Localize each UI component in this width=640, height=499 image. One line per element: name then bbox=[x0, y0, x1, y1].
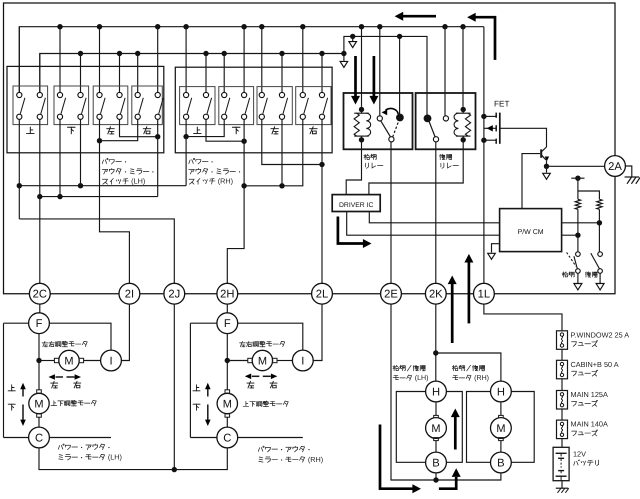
relay2 switch common contact bbox=[433, 137, 438, 142]
thick arrow below DRIVER IC bbox=[338, 217, 364, 244]
svg-text:(LH): (LH) bbox=[415, 374, 429, 382]
resistor R2 bbox=[597, 199, 602, 209]
label 左右調整モータ LH bbox=[42, 342, 48, 344]
svg-text:(LH): (LH) bbox=[108, 453, 122, 462]
connector I LH bbox=[101, 350, 122, 371]
junction dot RH bbox=[225, 358, 230, 363]
svg-text:MAIN 125A: MAIN 125A bbox=[571, 390, 608, 399]
wire H2 net 上R/下L to 右R bbox=[40, 196, 158, 198]
mirror motor assembly box RH bbox=[190, 323, 302, 437]
B+ rail to connector 1L bbox=[483, 27, 485, 284]
relay2 coil bbox=[461, 107, 466, 112]
svg-text:F: F bbox=[224, 318, 231, 330]
wire 下R column RH to connector 2H bbox=[227, 120, 244, 283]
svg-text:H: H bbox=[432, 386, 440, 398]
relay2 switch NC contact bbox=[443, 116, 448, 121]
svg-text:(LH): (LH) bbox=[131, 177, 145, 186]
wire fuse link bbox=[561, 379, 563, 391]
chassis ground at 2A bbox=[626, 166, 632, 177]
svg-text:P/W CM: P/W CM bbox=[518, 228, 544, 236]
resistor node bbox=[575, 176, 580, 181]
control unit outer border box bbox=[4, 3, 616, 294]
arrow marker on W36 bbox=[352, 36, 354, 41]
label power outer mirror motor LH bbox=[58, 446, 59, 450]
thick arrows near 2K bbox=[451, 284, 454, 343]
svg-text:2L: 2L bbox=[316, 289, 328, 301]
svg-text:M: M bbox=[431, 423, 440, 435]
wire M-B RH bbox=[500, 441, 502, 453]
connector C RH bbox=[217, 427, 238, 448]
svg-text:CABIN+B 50 A: CABIN+B 50 A bbox=[571, 360, 619, 369]
label 格納 bbox=[562, 272, 564, 277]
bus wire B+ (top bus 1) bbox=[19, 27, 484, 92]
connector 2A bbox=[605, 156, 626, 177]
labels 左 右 LH bbox=[51, 382, 58, 384]
wire B LH stub bbox=[435, 473, 437, 480]
wire fuse to battery bbox=[561, 439, 563, 448]
wire bus1 to relay2 contact bbox=[444, 27, 446, 116]
relay1 switch NC contact bbox=[377, 116, 382, 121]
junction dot H1 A1 bbox=[17, 183, 22, 188]
wire relay1 common to connector 2E bbox=[390, 142, 392, 283]
switch sub-boxes and contacts RH bbox=[180, 87, 215, 125]
junction dot emitter bbox=[544, 164, 549, 169]
svg-text:(RH): (RH) bbox=[308, 455, 323, 464]
wire 左R column RH bbox=[281, 120, 283, 186]
connector B RH bbox=[491, 452, 512, 473]
wire C LH to C RH with 2J return bbox=[39, 448, 227, 470]
relay1 switch NO contact bbox=[396, 114, 404, 122]
junction dot H2 A3 bbox=[57, 194, 62, 199]
bottom thick arrow 2 bbox=[439, 477, 456, 489]
junction dot 2J return bbox=[172, 467, 177, 472]
wire fuse link bbox=[561, 409, 563, 420]
P/W CM ground arrow bbox=[492, 244, 500, 253]
junction dot W36 relay1 contact bbox=[397, 34, 402, 39]
junction dot B LH bbox=[433, 477, 438, 482]
junction dot 右R bbox=[155, 134, 160, 139]
wire H-M RH bbox=[500, 402, 502, 416]
svg-text:(RH): (RH) bbox=[218, 177, 233, 186]
bus wire 2 (top bus 2) bbox=[40, 54, 344, 93]
mirror motor assembly box LH bbox=[4, 323, 112, 437]
vertical wires bus to switch contacts RH bbox=[185, 27, 187, 92]
top thick arrow 2 bbox=[476, 17, 496, 60]
svg-text:2C: 2C bbox=[33, 289, 47, 301]
svg-text:P.WINDOW2 25 A: P.WINDOW2 25 A bbox=[571, 330, 630, 339]
wire relay1 coil to DRIVER IC bbox=[346, 140, 361, 195]
label power outer mirror motor RH bbox=[258, 448, 259, 452]
wire fuse link bbox=[561, 349, 563, 360]
relay1 lever alternate position bbox=[393, 121, 399, 137]
svg-text:12V: 12V bbox=[573, 450, 586, 459]
RH block internal wire 上R to 下R bbox=[206, 120, 244, 141]
labels 左 右 RH bbox=[247, 382, 254, 384]
fuse MAIN 140A bbox=[557, 420, 568, 439]
left-right adjust motor LH bbox=[39, 360, 54, 362]
junction dot W186 左R bbox=[279, 183, 284, 188]
junction dot on W36 bbox=[350, 34, 355, 39]
junction dot W186 下R bbox=[241, 183, 246, 188]
switch sub-boxes and contacts LH bbox=[13, 86, 48, 125]
LH block internal wire 左L to 右L bbox=[100, 120, 138, 141]
svg-text:2E: 2E bbox=[384, 289, 398, 301]
wire RH net 下R/左R/右L bbox=[244, 120, 303, 186]
up-down direction arrows LH bbox=[22, 388, 24, 397]
wire bus1 to relay1 coil bbox=[361, 27, 363, 107]
svg-text:2I: 2I bbox=[125, 289, 134, 301]
svg-text:I: I bbox=[109, 355, 112, 367]
wire bus1 to relay1 contact bbox=[379, 27, 381, 116]
label 左右調整モータ RH bbox=[240, 342, 246, 344]
svg-text:FET: FET bbox=[494, 100, 509, 109]
svg-text:1L: 1L bbox=[478, 289, 490, 301]
svg-text:M: M bbox=[34, 398, 43, 410]
wire 2E to B motors bbox=[391, 304, 501, 480]
svg-text:H: H bbox=[497, 386, 505, 398]
wire connector to F LH bbox=[39, 304, 41, 313]
wire transistor base to P/W CM bbox=[522, 154, 540, 209]
connector F LH bbox=[29, 313, 50, 334]
power outer mirror switch RH block box bbox=[175, 67, 332, 153]
wire 下L column LH bbox=[59, 120, 61, 197]
wire 1L to fuse chain bbox=[484, 304, 562, 331]
up-down direction arrows RH bbox=[207, 388, 209, 397]
svg-text:M: M bbox=[64, 355, 73, 367]
battery 12V bbox=[553, 447, 569, 480]
svg-text:DRIVER IC: DRIVER IC bbox=[339, 202, 373, 209]
junction dot H1 A4 bbox=[78, 183, 83, 188]
label 上下調整モータ RH bbox=[245, 401, 247, 406]
label 復帰 bbox=[584, 272, 587, 273]
retract motor box RH bbox=[467, 392, 535, 463]
wire 左L column RH to 右R column bbox=[262, 120, 322, 165]
svg-text:2K: 2K bbox=[429, 289, 443, 301]
P/W CM box bbox=[500, 209, 562, 252]
thick arrows into relay1 bbox=[354, 56, 357, 97]
label 上下調整モータ LH bbox=[53, 401, 55, 406]
relay1 switch common contact bbox=[389, 137, 394, 142]
junction dot bus2/W36 bbox=[341, 51, 346, 56]
battery ground bbox=[561, 481, 563, 488]
arrow marker below emitter bbox=[546, 166, 548, 172]
vertical wires bus to switch contacts LH bbox=[18, 27, 20, 92]
svg-text:B: B bbox=[497, 457, 504, 469]
svg-text:F: F bbox=[36, 318, 43, 330]
wire bus1 to relay2 coil bbox=[462, 27, 464, 107]
wire to H RH bbox=[436, 353, 501, 381]
wire FET gate to transistor bbox=[500, 128, 547, 147]
label 格納／復帰モータ RH bbox=[453, 365, 455, 370]
wire relay2 common to connector 2K bbox=[435, 142, 437, 283]
wire DRIVER IC to P/W CM (B) bbox=[347, 212, 500, 236]
svg-text:C: C bbox=[35, 432, 43, 444]
relay2 switch NO contact bbox=[424, 115, 432, 123]
retract motor M LH bbox=[434, 415, 439, 418]
svg-text:(RH): (RH) bbox=[474, 374, 489, 382]
left-right adjust motor RH bbox=[227, 360, 248, 362]
RH block internal wire 上L to 下L bbox=[186, 120, 224, 137]
wire DRIVER IC to P/W CM (A) bbox=[369, 212, 499, 223]
labels 上 下 RH bbox=[196, 385, 198, 391]
wire I to connector LH bbox=[121, 304, 129, 360]
up-down adjust motor LH bbox=[38, 361, 40, 390]
bottom thick arrow 1 bbox=[380, 425, 413, 489]
relay1 lever bbox=[381, 121, 391, 137]
wire emitter to connector 2A bbox=[547, 165, 605, 167]
LH block internal wire 左R to 右R bbox=[120, 120, 158, 137]
resistor R1 bbox=[575, 199, 580, 209]
junction dot LH bbox=[36, 358, 41, 363]
wire P/W CM to R2 bbox=[562, 222, 600, 224]
junction dot 下R RH bbox=[241, 139, 246, 144]
wire I to connector RH bbox=[313, 304, 322, 360]
wire F down LH bbox=[38, 334, 40, 361]
connector C LH bbox=[29, 427, 50, 448]
svg-text:B: B bbox=[432, 457, 439, 469]
svg-text:2A: 2A bbox=[608, 161, 622, 173]
wire F down RH bbox=[226, 334, 228, 361]
fuse CABIN+B 50 A bbox=[557, 360, 568, 379]
up-down adjust motor RH bbox=[226, 361, 228, 390]
wire to connector 2J bbox=[19, 219, 174, 283]
label switch RH bbox=[189, 160, 190, 164]
retract motor box LH bbox=[396, 392, 462, 463]
fuse MAIN 125A bbox=[557, 391, 568, 410]
labels 上 下 LH bbox=[11, 385, 13, 391]
wire W36 to relay1 contact bbox=[399, 36, 401, 114]
DRIVER IC box bbox=[332, 195, 380, 212]
switch sub-box labels LH bbox=[29, 127, 31, 133]
label switch LH bbox=[102, 160, 103, 164]
left-right direction arrows LH bbox=[56, 376, 64, 378]
svg-text:M: M bbox=[496, 423, 505, 435]
junction dot 左L bbox=[97, 138, 102, 143]
svg-text:2H: 2H bbox=[220, 289, 234, 301]
junction dot bbox=[433, 350, 438, 355]
wire 2J down bbox=[173, 304, 175, 470]
retract motor M RH bbox=[499, 415, 504, 418]
wire node to resistor R2 bbox=[578, 191, 600, 199]
arrow marker on bus 2 bbox=[343, 54, 345, 61]
label 復帰リレー bbox=[439, 154, 442, 155]
connector H LH bbox=[426, 381, 447, 402]
switch 復帰 bbox=[598, 252, 603, 257]
top thick arrow 1 bbox=[403, 15, 436, 18]
junction dot R2 bbox=[597, 220, 602, 225]
connector H RH bbox=[491, 381, 512, 402]
wire 2K to H motors bbox=[435, 304, 437, 381]
fuse P.WINDOW2 25 A bbox=[557, 331, 568, 350]
svg-text:2J: 2J bbox=[168, 289, 180, 301]
storage relay box 格納リレー bbox=[344, 93, 413, 149]
svg-text:MAIN 140A: MAIN 140A bbox=[571, 420, 608, 429]
connector B LH bbox=[426, 452, 447, 473]
relay1 actuation arrow bbox=[386, 109, 399, 114]
wire P/W CM to R1 bbox=[562, 234, 578, 236]
wire H-M LH bbox=[435, 402, 437, 416]
wire 左L column LH to connector 2I bbox=[100, 120, 130, 283]
connector I RH bbox=[292, 350, 313, 371]
power outer mirror switch LH block box bbox=[7, 66, 164, 152]
junction dot R1 bbox=[575, 233, 580, 238]
junction dot W164 右R bbox=[319, 162, 324, 167]
connector F RH bbox=[217, 313, 238, 334]
junction dot 上L RH bbox=[183, 134, 188, 139]
label 格納／復帰モータ LH bbox=[393, 365, 395, 370]
wire W36 to relay contacts bbox=[344, 36, 427, 115]
transistor Q2 bbox=[540, 149, 542, 157]
thick arrow inside retract motor LH bbox=[454, 417, 457, 450]
connector row circles bbox=[29, 283, 50, 304]
relay2 lever bbox=[429, 121, 435, 137]
junction dots on bus 2 bbox=[78, 51, 83, 56]
svg-text:I: I bbox=[301, 355, 304, 367]
wire H1 net 上L/下R to RH 上L bbox=[18, 120, 20, 219]
label 格納リレー bbox=[364, 154, 366, 159]
junction dots on bus 1 bbox=[57, 24, 62, 29]
wire relay2 coil to DRIVER IC bbox=[369, 140, 463, 195]
svg-text:C: C bbox=[223, 432, 231, 444]
wire 下R column LH bbox=[80, 120, 82, 186]
wire 上R column LH to connector 2C bbox=[39, 120, 41, 283]
wire 右R column RH to connector 2L bbox=[321, 120, 323, 283]
svg-text:M: M bbox=[258, 355, 267, 367]
left-right direction arrows RH bbox=[252, 375, 259, 377]
switch sub-box labels RH bbox=[196, 127, 198, 133]
junction dot H2 A2 bbox=[37, 194, 42, 199]
relay1 coil bbox=[359, 107, 364, 112]
wire connector to F RH bbox=[226, 304, 228, 313]
switch 格納 bbox=[576, 252, 581, 257]
svg-text:M: M bbox=[223, 398, 232, 410]
return relay box 復帰リレー bbox=[416, 93, 476, 149]
wire M-B LH bbox=[435, 441, 437, 453]
